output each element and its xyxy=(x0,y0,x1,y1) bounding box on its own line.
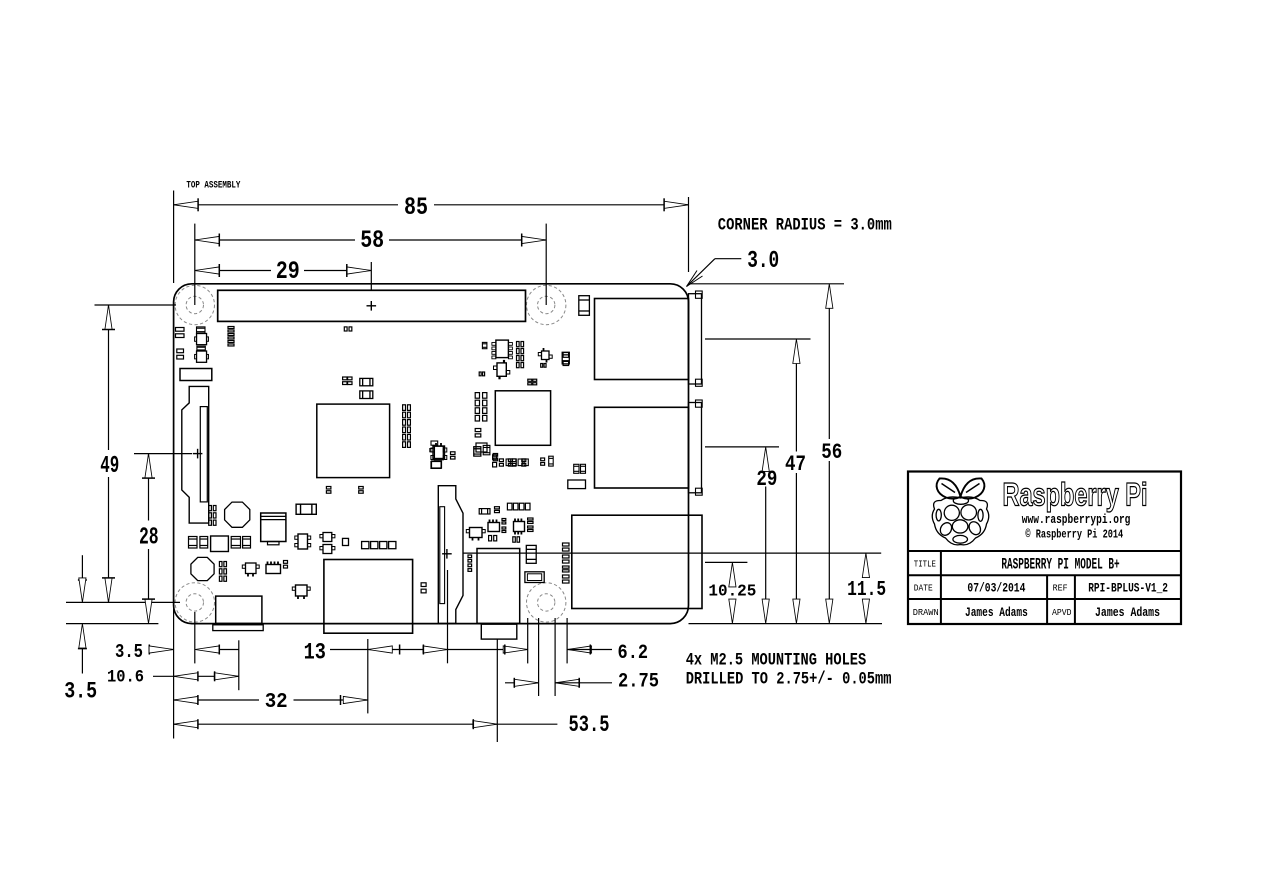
dim 29 xyxy=(195,270,271,272)
svg-text:CORNER RADIUS = 3.0mm: CORNER RADIUS = 3.0mm xyxy=(718,215,892,235)
svg-text:REF: REF xyxy=(1053,582,1068,593)
pads left of audio jack xyxy=(468,555,472,558)
dim 49 xyxy=(108,305,110,450)
raspberry logo leaves xyxy=(937,478,985,498)
dim 85 extension lines xyxy=(173,191,175,284)
component cluster above camera conn xyxy=(433,446,445,459)
board bottom extension left xyxy=(66,623,158,625)
svg-text:2.75: 2.75 xyxy=(618,670,659,693)
USB/Ethernet controller U2 xyxy=(495,391,550,446)
oscillator X2 xyxy=(191,557,214,580)
capacitor near USB1 xyxy=(579,296,590,316)
mounting hole H3 bottom-left xyxy=(175,583,214,622)
tiny parts left of Ethernet xyxy=(563,543,570,546)
svg-text:James Adams: James Adams xyxy=(1095,605,1160,620)
dim 58 extension lines xyxy=(194,224,196,305)
dim 28 xyxy=(148,454,150,521)
dim 3.5 left vertical xyxy=(81,555,83,580)
SoC U1 xyxy=(317,404,390,478)
svg-text:13: 13 xyxy=(304,640,326,666)
dim 29 right xyxy=(762,447,769,472)
USB connector 1 body xyxy=(595,299,689,380)
DSI display connector xyxy=(182,386,209,523)
svg-text:DRILLED TO 2.75+/- 0.05mm: DRILLED TO 2.75+/- 0.05mm xyxy=(686,670,892,690)
svg-text:56: 56 xyxy=(821,440,842,465)
inductor right of audio jack xyxy=(526,545,536,563)
component tiny below GPIO xyxy=(344,327,347,331)
svg-text:58: 58 xyxy=(360,226,384,255)
svg-text:53.5: 53.5 xyxy=(569,712,610,739)
row of pads above HDMI xyxy=(362,542,369,549)
oscillator X1 xyxy=(225,502,250,527)
svg-text:TITLE: TITLE xyxy=(914,559,936,570)
component small xyxy=(479,372,481,376)
transistor Q6 xyxy=(296,585,308,596)
IC U7 xyxy=(488,523,500,532)
caps left of USB2 xyxy=(574,464,579,473)
transistor Q3 xyxy=(246,563,257,574)
IC U5 xyxy=(266,565,281,574)
svg-text:07/03/2014: 07/03/2014 xyxy=(967,580,1025,595)
component wide rect left xyxy=(180,369,212,381)
IC U8 xyxy=(514,522,525,532)
svg-text:DRAWN: DRAWN xyxy=(913,607,939,618)
svg-text:29: 29 xyxy=(756,467,777,492)
mounting hole H4 bottom-right xyxy=(527,583,566,622)
svg-text:RPI-BPLUS-V1_2: RPI-BPLUS-V1_2 xyxy=(1088,580,1168,595)
svg-text:3.5: 3.5 xyxy=(115,641,143,663)
caps column right of U4 xyxy=(517,342,520,347)
svg-text:DATE: DATE xyxy=(914,582,933,593)
component cluster above U2 xyxy=(482,342,487,348)
extension verticals below board xyxy=(173,600,175,739)
dim 28 extension line xyxy=(134,453,192,455)
CSI camera connector xyxy=(438,486,463,624)
op IC U4 xyxy=(496,340,509,358)
pads near U8 xyxy=(502,519,506,521)
audio jack xyxy=(477,549,520,624)
dim 85 xyxy=(174,204,398,206)
dim 6.2 xyxy=(503,646,528,653)
right extension lines xyxy=(690,283,844,285)
components above SoC xyxy=(343,377,347,380)
svg-text:James Adams: James Adams xyxy=(965,605,1028,620)
svg-text:28: 28 xyxy=(139,525,159,552)
dim 10.25 xyxy=(729,562,736,587)
dim 11.5 xyxy=(862,553,869,578)
title block frame xyxy=(908,472,1181,625)
component right of audio jack xyxy=(525,572,544,583)
board outline xyxy=(174,284,689,624)
svg-text:APVD: APVD xyxy=(1052,607,1072,618)
svg-text:85: 85 xyxy=(404,193,428,222)
components below SoC xyxy=(326,487,331,490)
caps right of X2 xyxy=(219,562,222,567)
svg-text:10.6: 10.6 xyxy=(107,668,144,688)
cap pair xyxy=(528,379,532,381)
svg-text:49: 49 xyxy=(100,453,119,480)
USB connector 1 plug xyxy=(689,294,702,384)
regulator U6 xyxy=(298,534,308,549)
dim 49 extension lines xyxy=(95,304,177,306)
svg-text:3.5: 3.5 xyxy=(64,679,97,705)
caps pair below U2 left xyxy=(474,447,481,456)
USB connector 2 body xyxy=(595,407,689,488)
svg-text:11.5: 11.5 xyxy=(847,579,886,602)
transistor Q2 xyxy=(542,351,550,360)
svg-text:4x M2.5 MOUNTING HOLES: 4x M2.5 MOUNTING HOLES xyxy=(686,651,867,671)
svg-text:29: 29 xyxy=(276,257,300,286)
capacitor C near Q2 xyxy=(562,352,569,364)
components row above X2 xyxy=(189,537,198,549)
HDMI connector xyxy=(324,560,413,634)
svg-text:© Raspberry Pi 2014: © Raspberry Pi 2014 xyxy=(1025,528,1123,541)
caps left of U2 xyxy=(475,393,479,399)
transistor Q7 xyxy=(470,528,483,538)
inductor L1 xyxy=(296,504,316,514)
pads right of HDMI xyxy=(421,583,426,587)
row of caps right of camera conn xyxy=(493,455,497,460)
regulator U3 right of SoC xyxy=(434,446,443,460)
dim 53.5 xyxy=(174,723,558,725)
svg-text:3.0: 3.0 xyxy=(747,248,779,275)
dim 29 extension line xyxy=(370,262,372,290)
svg-text:Raspberry Pi: Raspberry Pi xyxy=(1003,477,1148,513)
mounting hole H2 top-right xyxy=(527,285,566,324)
decoupling caps right of SoC xyxy=(403,405,406,411)
dim 47 xyxy=(793,339,800,364)
components below U2 xyxy=(493,454,497,457)
dim 2.75 xyxy=(505,682,539,684)
dim 32 xyxy=(174,699,259,701)
GPIO header J8 xyxy=(218,290,526,321)
svg-text:10.25: 10.25 xyxy=(708,582,756,601)
svg-text:RASPBERRY PI MODEL B+: RASPBERRY PI MODEL B+ xyxy=(1001,556,1119,574)
component cluster top-left xyxy=(176,328,185,332)
Ethernet connector xyxy=(572,515,702,608)
capacitor C6 electrolytic xyxy=(261,513,286,542)
micro-USB power connector xyxy=(216,596,262,623)
mounting hole H1 top-left xyxy=(175,285,214,324)
pad small xyxy=(343,538,349,545)
component row middle-bottom xyxy=(507,503,512,510)
dim 56 xyxy=(826,284,833,309)
caps left of X1 xyxy=(209,506,212,511)
dim 58 xyxy=(195,239,355,241)
svg-text:TOP ASSEMBLY: TOP ASSEMBLY xyxy=(186,180,240,192)
transistor Q1 xyxy=(497,363,506,376)
transistor pair Q4 Q5 xyxy=(323,533,332,542)
svg-text:6.2: 6.2 xyxy=(618,642,649,665)
svg-text:www.raspberrypi.org: www.raspberrypi.org xyxy=(1022,513,1131,527)
svg-text:32: 32 xyxy=(265,690,288,714)
raspberry logo berry xyxy=(932,497,989,545)
USB connector 2 plug xyxy=(689,403,702,493)
svg-text:47: 47 xyxy=(785,452,806,477)
